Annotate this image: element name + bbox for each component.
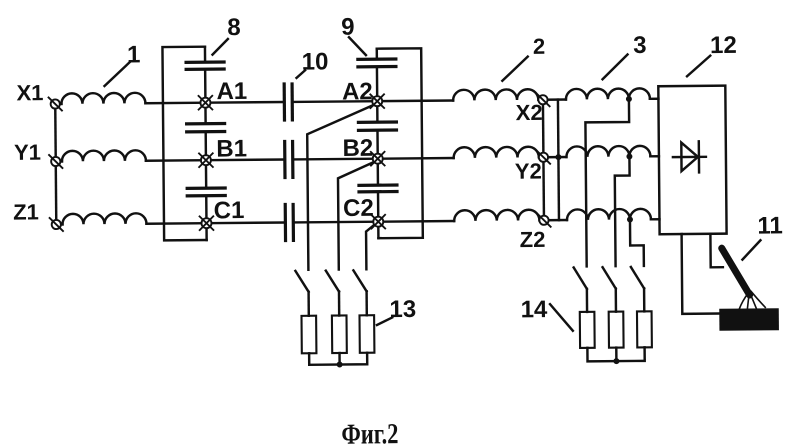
inductor 1 phase A xyxy=(61,93,145,104)
capacitor bank 9 chain leads xyxy=(377,49,379,238)
wire row B: node B2 to inductor 2 xyxy=(378,157,454,160)
electrode 11 xyxy=(722,248,750,295)
wire row B: node B1 to capacitor 10 xyxy=(206,158,285,161)
input terminal bus X1-Y1-Z1 xyxy=(55,104,56,224)
svg-text:1: 1 xyxy=(127,41,141,68)
switch S13-3 blade xyxy=(353,270,366,291)
wire row C: capacitor 10 to node C2 xyxy=(293,220,378,223)
leader line for label 1 xyxy=(104,62,130,86)
terminal Y1 xyxy=(48,154,63,169)
svg-text:12: 12 xyxy=(710,32,737,59)
node C2 xyxy=(371,214,386,229)
junction dot rail 14 xyxy=(613,358,619,364)
resistor R13-3 xyxy=(359,315,374,353)
wire row C: winding 3 to block 12 xyxy=(651,218,659,221)
svg-text:14: 14 xyxy=(521,296,549,323)
wire row A: node A1 to capacitor 10 xyxy=(205,101,284,104)
thyristor symbol inside block 12 xyxy=(673,156,706,159)
wire row A: node A2 to inductor 2 xyxy=(377,99,453,102)
svg-text:Z2: Z2 xyxy=(520,227,546,252)
svg-text:Z1: Z1 xyxy=(13,199,39,224)
svg-text:B1: B1 xyxy=(216,135,247,162)
svg-text:C1: C1 xyxy=(214,197,245,224)
wire row B: capacitor 10 to node B2 xyxy=(293,157,378,160)
switch S14-1 blade xyxy=(574,267,587,289)
svg-text:9: 9 xyxy=(341,14,355,41)
workpiece xyxy=(719,308,779,331)
capacitor C8a plates xyxy=(186,62,224,69)
electrode arc strands xyxy=(739,291,765,310)
common bus of winding 3 xyxy=(558,100,559,220)
leader line for label 9 xyxy=(349,37,366,55)
leader line for label 11 xyxy=(742,240,760,259)
junction dot winding3 common bus xyxy=(555,154,561,160)
svg-text:3: 3 xyxy=(633,32,647,59)
wire row A: capacitor 10 to node A2 xyxy=(292,100,377,103)
svg-text:X1: X1 xyxy=(16,80,43,105)
wire row C: node C1 to capacitor 10 xyxy=(206,221,285,224)
svg-text:8: 8 xyxy=(227,14,241,41)
node B2 xyxy=(370,151,385,166)
capacitor C9b plates xyxy=(358,122,396,130)
capacitor C9c plates xyxy=(359,185,397,192)
terminal X2 xyxy=(536,92,551,107)
capacitor C10a (series capacitor 10 phase A) xyxy=(284,84,292,120)
tap wire node B2 to switch S13-2 xyxy=(338,162,375,270)
wire row B: winding 3 to block 12 xyxy=(650,155,658,158)
svg-text:13: 13 xyxy=(389,296,416,323)
inductor 1 phase C xyxy=(62,213,146,224)
output terminal bus X2-Y2-Z2 xyxy=(543,100,544,220)
capacitor bank 8 chain leads xyxy=(205,47,207,240)
svg-text:Y1: Y1 xyxy=(14,140,41,165)
wire row B: terminal to inductor 1 xyxy=(56,160,62,163)
junction dot tap 3a xyxy=(626,96,632,102)
tap wire node A2 to switch S13-1 xyxy=(307,105,375,270)
terminal X1 xyxy=(48,97,63,112)
resistor R14-2 xyxy=(609,312,624,348)
junction dot tap 3b xyxy=(626,153,632,159)
svg-text:Фиг.2: Фиг.2 xyxy=(341,418,398,447)
wire row C: inductor 1 to node C1 xyxy=(146,222,206,225)
winding 3 phase C xyxy=(567,209,651,220)
switch S14-2 blade xyxy=(603,267,616,289)
resistor R13-2 xyxy=(332,315,347,353)
capacitor C10b (series capacitor 10 phase B) xyxy=(285,141,293,177)
wire block 12 to electrode xyxy=(710,234,722,268)
svg-text:B2: B2 xyxy=(342,135,373,162)
wire row B: terminal to winding 3 xyxy=(543,156,566,159)
resistor R14-3 xyxy=(637,311,652,347)
leader line for label 3 xyxy=(602,55,627,80)
inductor 2 phase B xyxy=(454,147,539,158)
junction dot tap 3c xyxy=(627,216,633,222)
junction dot rail 13 xyxy=(337,362,343,368)
tap wire winding 3C to switch S14-3 xyxy=(630,219,644,266)
inductor 2 phase A xyxy=(453,89,538,100)
tap wire winding 3B to switch S14-2 xyxy=(615,156,631,266)
capacitor bank 8 bypass loop (left edge and rails) xyxy=(162,47,206,241)
node A1 xyxy=(198,95,213,110)
svg-text:11: 11 xyxy=(757,212,783,239)
inductor 2 phase C xyxy=(454,210,539,221)
inductor 1 phase B xyxy=(62,150,146,161)
capacitor C10c (series capacitor 10 phase C) xyxy=(285,204,293,240)
capacitor C8c plates xyxy=(187,188,225,196)
leader line for label 13 xyxy=(377,317,392,325)
capacitor bank 9 bypass loop (right edge and rails) xyxy=(377,48,423,238)
wire row C: terminal to inductor 1 xyxy=(56,223,62,226)
leader line for label 14 xyxy=(550,304,573,331)
wire row C: node C2 to inductor 2 xyxy=(378,220,454,223)
node B1 xyxy=(198,153,213,168)
terminal Y2 xyxy=(536,150,551,165)
resistor group 13 bottom rail xyxy=(309,353,367,365)
svg-text:C2: C2 xyxy=(343,195,374,222)
svg-text:Y2: Y2 xyxy=(515,159,542,184)
capacitor C9a plates xyxy=(358,59,396,67)
winding 3 phase B xyxy=(566,146,650,157)
svg-text:A1: A1 xyxy=(216,78,247,105)
wire row A: terminal to inductor 1 xyxy=(55,103,61,106)
switch S13-2 blade xyxy=(326,271,339,292)
capacitor C8b plates xyxy=(187,124,225,132)
resistor R14-1 xyxy=(580,312,595,348)
leader line for label 10 xyxy=(296,70,305,78)
resistor group 14 bottom rail xyxy=(587,347,644,361)
resistor R13-1 xyxy=(301,316,316,354)
wire block 12 to workpiece xyxy=(682,234,720,314)
wire row C: terminal to winding 3 xyxy=(544,219,567,222)
svg-text:10: 10 xyxy=(302,48,329,75)
winding 3 phase A xyxy=(566,88,650,99)
switch S14-3 blade xyxy=(631,267,644,289)
node C1 xyxy=(199,216,214,231)
switch S13-1 blade xyxy=(295,271,308,292)
wire row B: inductor 1 to node B1 xyxy=(146,159,206,162)
terminal Z1 xyxy=(49,217,64,232)
svg-text:2: 2 xyxy=(533,34,545,59)
tap wire node C2 to switch S13-3 xyxy=(366,225,375,269)
tap wire winding 3A to switch S14-1 xyxy=(585,99,630,266)
svg-text:X2: X2 xyxy=(516,100,543,125)
svg-text:A2: A2 xyxy=(342,78,373,105)
leader line for label 2 xyxy=(502,57,528,81)
leader line for label 12 xyxy=(687,56,711,77)
wire row A: terminal to winding 3 xyxy=(543,98,566,101)
wire row A: inductor 1 to node A1 xyxy=(145,101,205,104)
node A2 xyxy=(370,94,385,109)
leader line for label 8 xyxy=(212,39,228,55)
wire row A: winding 3 to block 12 xyxy=(650,98,658,101)
terminal Z2 xyxy=(537,213,552,228)
thyristor block 12 box xyxy=(658,86,726,235)
